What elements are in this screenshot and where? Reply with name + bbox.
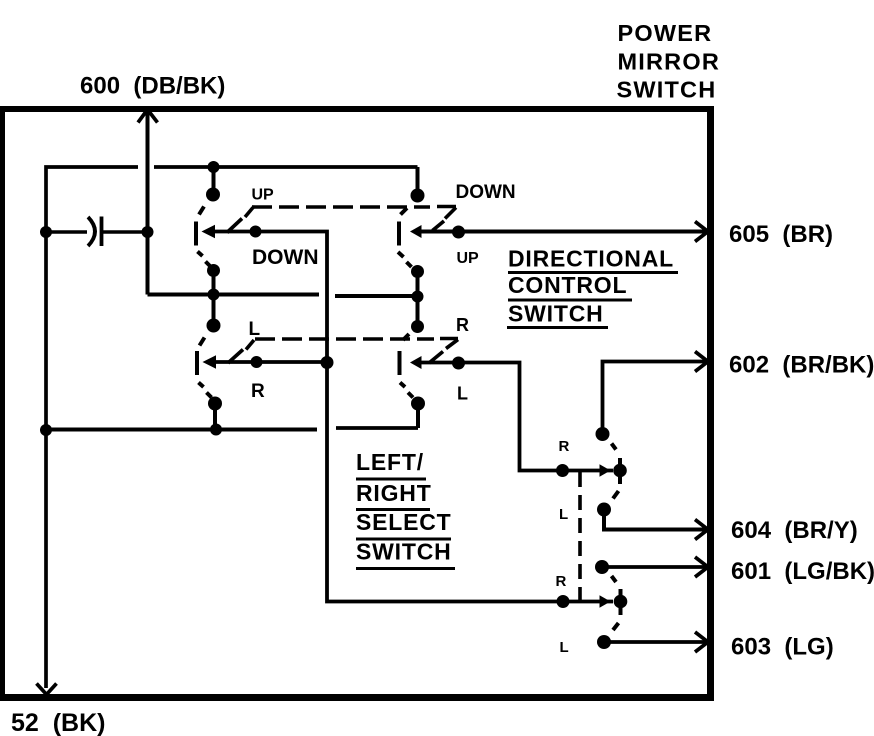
arrow 602 exit xyxy=(695,352,708,372)
arrow 52 (BK) exit bottom xyxy=(37,684,57,695)
title POWER MIRROR SWITCH xyxy=(617,20,721,102)
wire: 600 feed vertical xyxy=(146,111,150,295)
svg-text:MIRROR: MIRROR xyxy=(618,48,721,74)
svg-text:DOWN: DOWN xyxy=(252,246,319,269)
node: junction with select feed xyxy=(321,356,334,369)
node: capacitor left xyxy=(40,226,52,238)
pivot arrowhead S1a xyxy=(202,225,216,238)
wire: stub to DOWN contact right switch xyxy=(416,167,420,196)
node: S1b wire contact xyxy=(452,226,465,239)
contact: S1a bottom (DOWN) xyxy=(207,264,220,277)
arrow 605 exit xyxy=(695,222,708,242)
svg-text:UP: UP xyxy=(457,250,480,267)
svg-text:SWITCH: SWITCH xyxy=(617,76,717,102)
wire: 604 output xyxy=(604,510,706,530)
node: junction S2a bottom xyxy=(210,424,222,436)
dash arc S3a upper xyxy=(612,444,617,450)
contact: S3a bottom (L) xyxy=(597,503,611,517)
wire: feed lower horizontal left part y=294.5 xyxy=(148,293,320,297)
node: S2a wire contact xyxy=(251,356,263,368)
dash arc S3b upper xyxy=(612,576,617,582)
svg-text:52 (BK): 52 (BK) xyxy=(11,709,105,736)
svg-text:L: L xyxy=(560,639,569,656)
dash arc S2b lower xyxy=(400,383,405,388)
label LEFT/RIGHT SELECT SWITCH xyxy=(356,449,452,565)
label DIRECTIONAL CONTROL SWITCH xyxy=(508,246,674,327)
dash arc S1b lower xyxy=(398,252,404,257)
switch S2a select L/R left xyxy=(197,319,243,430)
blade S2b xyxy=(429,352,443,364)
dashed mechanical link select xyxy=(578,472,582,601)
contact: S3b bottom (L) xyxy=(597,635,611,649)
contact: S1b top (DOWN) xyxy=(411,189,425,203)
node: S2b wire contact xyxy=(452,357,465,370)
wire: top bus y=167 xyxy=(46,167,138,688)
dash arc S1a upper xyxy=(199,207,204,215)
pivot arrowhead S2b xyxy=(410,356,422,369)
pivot arrowhead S3a xyxy=(600,464,611,476)
wire: feed lower horizontal right part y=296 xyxy=(335,294,418,298)
wire: S2b output to select switch 1 xyxy=(416,363,613,471)
svg-text:POWER: POWER xyxy=(618,20,713,46)
wire: stub to ground bus xyxy=(213,404,217,430)
contact: S2b bottom (L) xyxy=(411,397,425,411)
svg-text:LEFT/: LEFT/ xyxy=(356,449,424,475)
wire: stub to UP contact xyxy=(212,167,216,194)
dash arc S2a upper xyxy=(200,338,205,346)
pivot dot S3a xyxy=(613,464,627,478)
svg-text:L: L xyxy=(457,384,468,404)
arrow 601 exit xyxy=(695,557,708,577)
node: junction on y294.5 xyxy=(208,289,220,301)
dash arc S3b lower xyxy=(613,623,619,630)
svg-text:UP: UP xyxy=(252,186,275,203)
wire: S2a output to select feed junction xyxy=(210,360,327,364)
arrow 604 exit xyxy=(695,520,708,540)
contact: S2b top (R) xyxy=(411,320,424,333)
svg-text:CONTROL: CONTROL xyxy=(508,272,627,298)
contact: S1b bottom (UP) xyxy=(411,265,424,278)
pivot arrowhead S3b xyxy=(600,595,611,607)
wire: 601 output xyxy=(602,565,706,569)
svg-text:SWITCH: SWITCH xyxy=(356,539,452,565)
switch S2b select R/L right xyxy=(400,320,444,428)
svg-text:R: R xyxy=(556,573,567,590)
contact: S2a bottom (R) xyxy=(208,397,222,411)
wire: ground bus y=428 right part xyxy=(336,426,418,430)
dash arc S1a lower xyxy=(198,252,203,257)
wire: contact stub down xyxy=(416,272,420,327)
arrow 600 (DB/BK) exit top xyxy=(138,110,158,123)
dashed link S2 row2 xyxy=(246,339,458,350)
switch S1b directional DOWN/UP right xyxy=(398,189,444,327)
svg-text:RIGHT: RIGHT xyxy=(356,480,432,506)
wire: stub to ground bus right part xyxy=(416,404,420,429)
dash arc S2b upper xyxy=(403,334,409,340)
svg-text:604 (BR/Y): 604 (BR/Y) xyxy=(731,517,858,544)
node: ground bus junction xyxy=(40,424,52,436)
wire: ground bus y=429.5 left part xyxy=(46,428,317,432)
connector box border xyxy=(0,106,714,701)
svg-text:R: R xyxy=(559,438,570,455)
switch S1a directional UP/DOWN left xyxy=(196,188,242,326)
svg-text:601 (LG/BK): 601 (LG/BK) xyxy=(731,558,874,585)
svg-text:R: R xyxy=(456,315,469,335)
svg-text:603 (LG): 603 (LG) xyxy=(731,634,834,661)
switch S3a select first xyxy=(556,427,627,517)
contact: S2a top (L) xyxy=(207,319,221,333)
pivot bar S3a xyxy=(618,458,622,484)
dash arc S3a lower xyxy=(613,491,619,499)
wire: 603 output xyxy=(604,640,706,644)
blade S1a xyxy=(227,219,242,233)
pivot bar S1b xyxy=(397,222,401,246)
pivot bar S2a xyxy=(195,351,199,375)
node: top bus / left switch feed xyxy=(208,161,220,173)
svg-text:DOWN: DOWN xyxy=(456,182,516,203)
dashed link S1 row1 xyxy=(245,207,456,219)
node: S3a input xyxy=(556,464,569,477)
svg-text:L: L xyxy=(559,506,568,523)
capacitor C1 xyxy=(46,217,148,247)
dash arc S1b upper xyxy=(401,208,408,215)
svg-text:DIRECTIONAL: DIRECTIONAL xyxy=(508,246,674,272)
arrow 603 exit xyxy=(695,632,708,652)
pivot bar S2b xyxy=(398,351,402,375)
wire: contact stub down xyxy=(212,271,216,326)
dash arc S2a lower xyxy=(199,383,204,388)
node: junction on y296 xyxy=(412,291,424,303)
svg-text:605 (BR): 605 (BR) xyxy=(729,221,833,248)
pivot arrowhead S2a xyxy=(203,355,217,368)
contact: S3a top (R) xyxy=(596,427,610,441)
wire: 602 output xyxy=(603,362,707,435)
svg-text:SELECT: SELECT xyxy=(356,509,452,535)
contact: S1a top (UP) xyxy=(206,188,220,202)
blade S1b xyxy=(433,221,445,231)
pivot arrowhead S1b xyxy=(410,225,422,238)
svg-text:SWITCH: SWITCH xyxy=(508,301,604,327)
pivot bar S1a xyxy=(194,222,198,246)
node: S3b input xyxy=(557,595,570,608)
svg-text:602 (BR/BK): 602 (BR/BK) xyxy=(729,352,874,379)
wire: top bus right part xyxy=(154,165,418,169)
blade S2a xyxy=(228,350,243,364)
node: capacitor right / feed xyxy=(142,226,154,238)
svg-text:R: R xyxy=(251,381,265,402)
wire: 605 output xyxy=(415,230,706,234)
contact: S3b top (R) xyxy=(595,560,609,574)
wire: S1a output to select feed (x=327 vertical) xyxy=(210,232,613,602)
pivot bar S3b xyxy=(619,589,623,615)
pivot dot S3b xyxy=(614,595,628,609)
node: S1a wire contact xyxy=(250,226,262,238)
svg-text:L: L xyxy=(249,319,261,340)
svg-text:600 (DB/BK): 600 (DB/BK) xyxy=(80,73,225,100)
switch S3b select second xyxy=(557,560,628,649)
